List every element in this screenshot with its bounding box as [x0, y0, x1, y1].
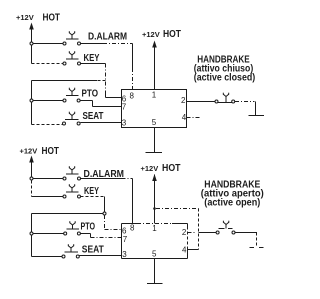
- svg-text:PTO: PTO: [82, 89, 99, 100]
- svg-text:+12V: +12V: [20, 147, 38, 156]
- svg-text:HOT: HOT: [42, 146, 60, 157]
- svg-text:HOT: HOT: [163, 29, 181, 40]
- svg-text:(active closed): (active closed): [194, 73, 256, 84]
- svg-text:8: 8: [130, 92, 135, 101]
- svg-text:KEY: KEY: [84, 186, 99, 197]
- svg-text:D.ALARM: D.ALARM: [88, 32, 127, 43]
- svg-text:D.ALARM: D.ALARM: [84, 169, 125, 180]
- svg-text:7: 7: [122, 103, 127, 112]
- svg-text:SEAT: SEAT: [83, 111, 104, 122]
- svg-text:5: 5: [152, 250, 157, 259]
- svg-text:2: 2: [182, 228, 187, 237]
- svg-text:4: 4: [182, 113, 187, 122]
- svg-text:KEY: KEY: [84, 53, 100, 64]
- svg-text:HOT: HOT: [162, 163, 181, 174]
- svg-text:3: 3: [122, 119, 127, 128]
- svg-text:4: 4: [182, 245, 187, 254]
- svg-text:+12V: +12V: [16, 13, 34, 22]
- svg-text:8: 8: [130, 224, 135, 233]
- svg-text:3: 3: [122, 250, 127, 259]
- svg-text:+12V: +12V: [142, 30, 160, 39]
- svg-text:SEAT: SEAT: [82, 245, 104, 256]
- svg-text:(active open): (active open): [204, 198, 260, 209]
- svg-text:2: 2: [181, 96, 186, 105]
- svg-text:7: 7: [123, 235, 128, 244]
- svg-text:HOT: HOT: [43, 13, 61, 24]
- svg-text:1: 1: [152, 224, 157, 233]
- svg-text:PTO: PTO: [81, 222, 96, 233]
- svg-text:5: 5: [152, 118, 157, 127]
- svg-text:+12V: +12V: [141, 164, 159, 173]
- svg-text:1: 1: [152, 91, 157, 100]
